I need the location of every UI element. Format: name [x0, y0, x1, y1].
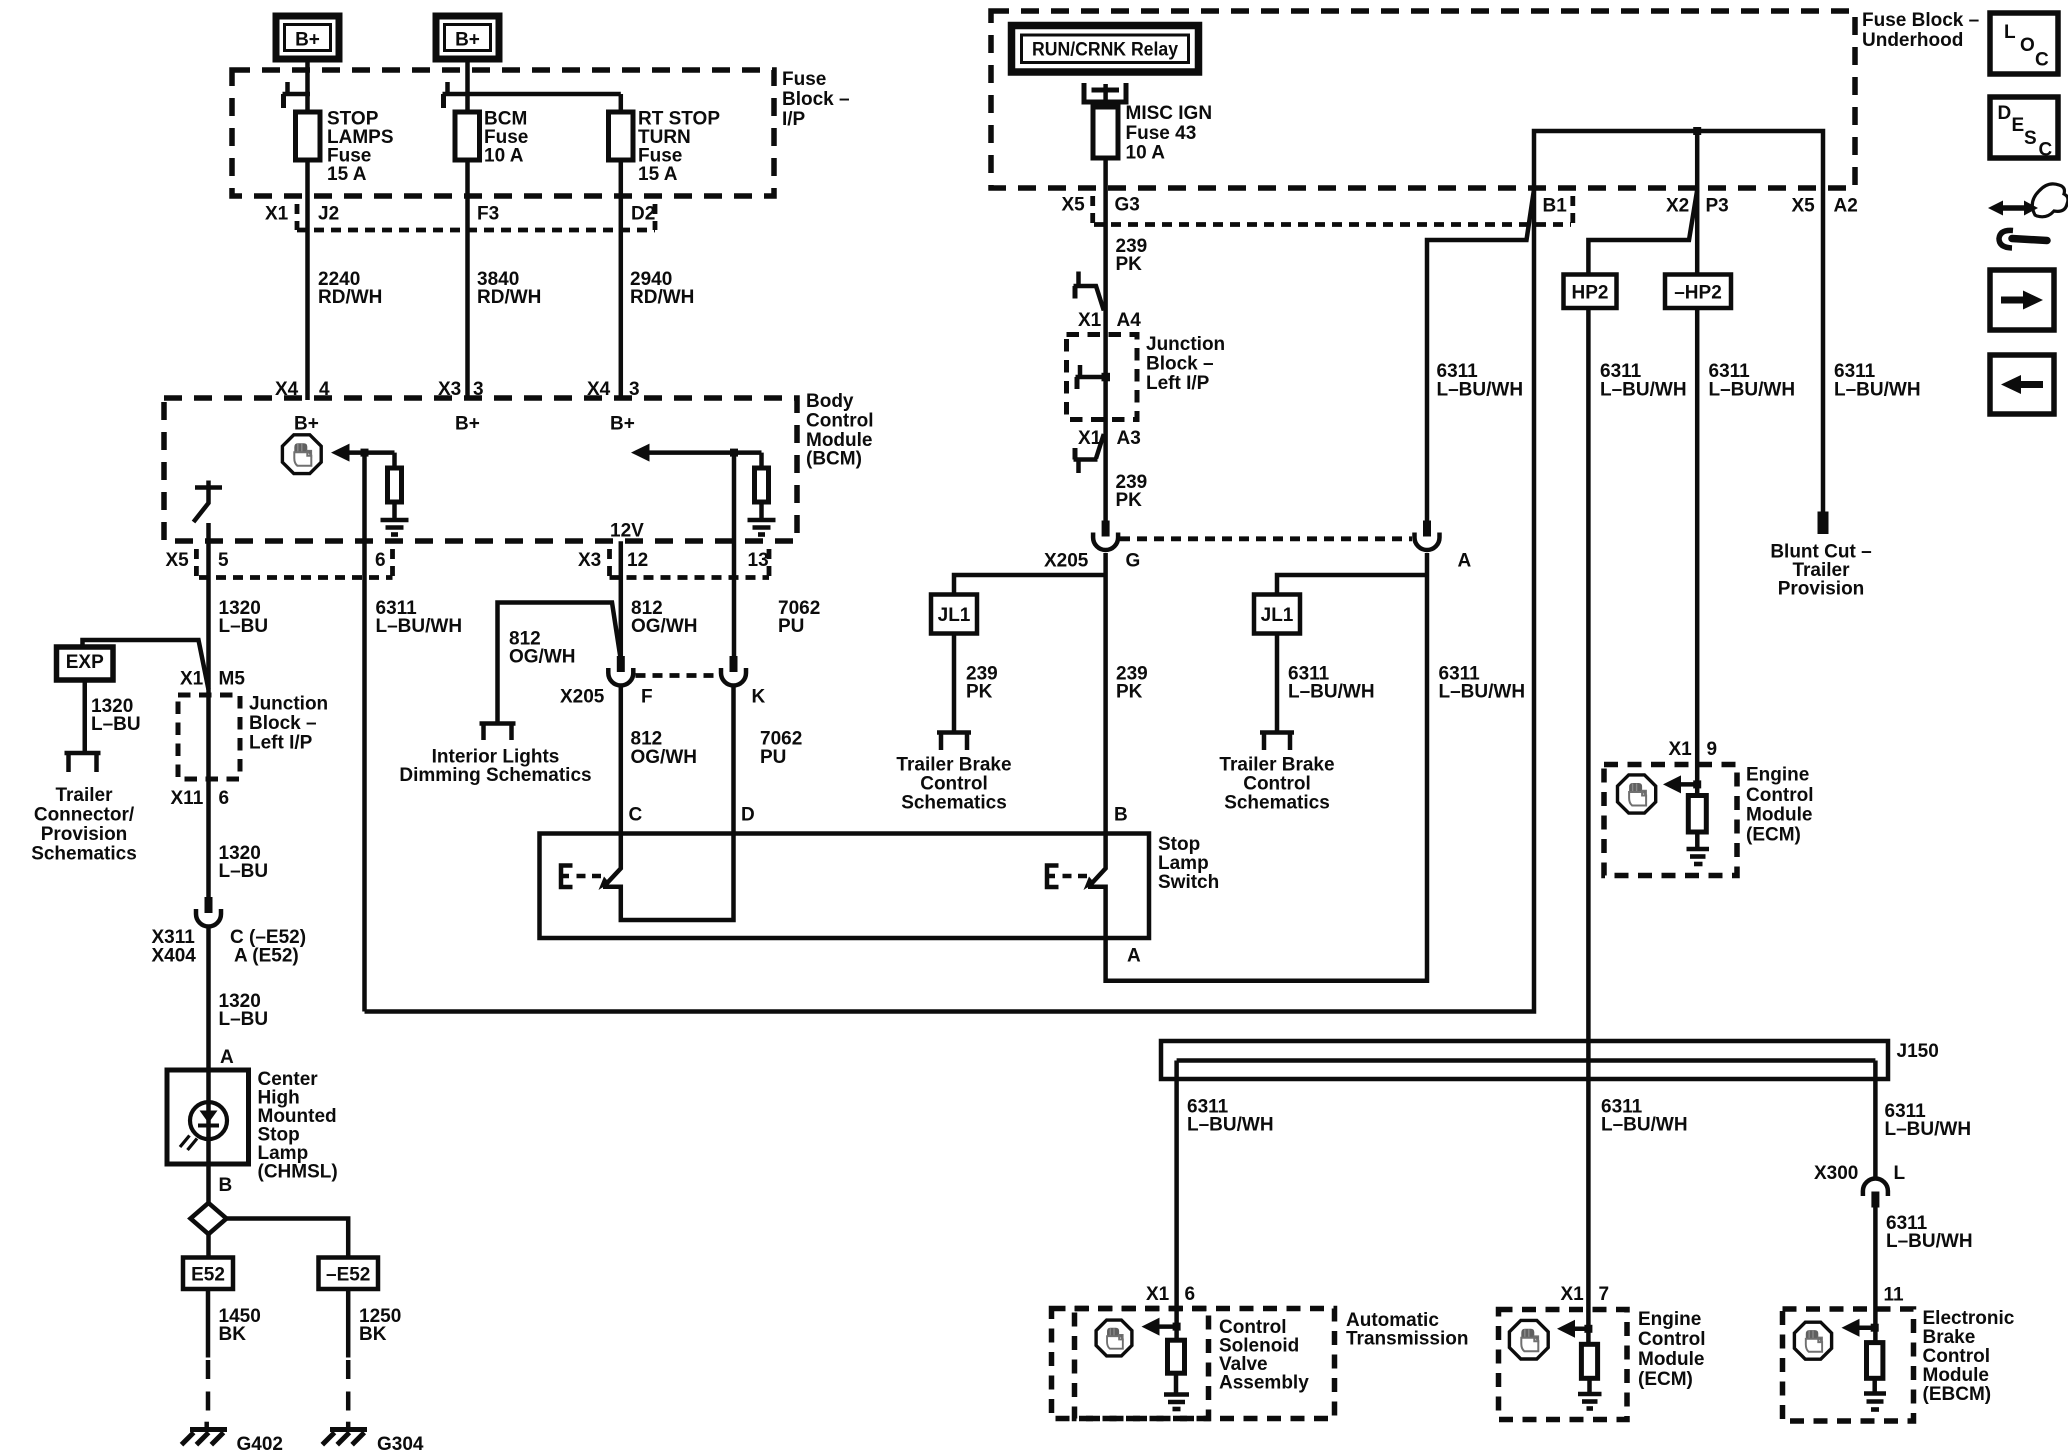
svg-text:PK: PK	[1116, 254, 1143, 275]
svg-text:BK: BK	[359, 1324, 387, 1345]
svg-text:OG/WH: OG/WH	[631, 747, 698, 768]
svg-text:–HP2: –HP2	[1674, 283, 1722, 304]
svg-text:Switch: Switch	[1158, 872, 1219, 893]
svg-text:Electronic: Electronic	[1923, 1308, 2015, 1329]
svg-text:A3: A3	[1117, 428, 1141, 449]
svg-text:B: B	[1114, 805, 1128, 826]
svg-text:B1: B1	[1543, 196, 1568, 217]
svg-text:B+: B+	[610, 414, 635, 435]
svg-text:L–BU/WH: L–BU/WH	[1601, 1115, 1688, 1136]
svg-text:X404: X404	[152, 946, 197, 967]
svg-text:C: C	[629, 805, 643, 826]
svg-text:Provision: Provision	[1778, 579, 1865, 600]
svg-text:Control: Control	[1923, 1346, 1991, 1367]
svg-text:F3: F3	[477, 204, 499, 225]
svg-text:JL1: JL1	[938, 605, 971, 626]
svg-text:L–BU: L–BU	[219, 1009, 269, 1030]
svg-text:C: C	[2035, 50, 2049, 71]
svg-text:L–BU/WH: L–BU/WH	[1886, 1231, 1973, 1252]
svg-text:10 A: 10 A	[484, 146, 524, 167]
svg-text:E: E	[2012, 115, 2025, 136]
svg-text:C: C	[2039, 140, 2053, 161]
svg-text:12: 12	[627, 550, 648, 571]
svg-text:4: 4	[319, 379, 330, 400]
svg-text:E52: E52	[191, 1265, 225, 1286]
svg-text:X1: X1	[1078, 428, 1102, 449]
svg-text:A2: A2	[1834, 196, 1858, 217]
svg-text:Junction: Junction	[1146, 334, 1225, 355]
svg-text:Module: Module	[1746, 805, 1813, 826]
svg-text:X1: X1	[1669, 739, 1693, 760]
svg-text:RD/WH: RD/WH	[318, 287, 382, 308]
svg-text:X1: X1	[1146, 1284, 1170, 1305]
svg-text:MISC IGN: MISC IGN	[1126, 103, 1213, 124]
svg-text:OG/WH: OG/WH	[509, 647, 576, 668]
svg-text:Module: Module	[1638, 1349, 1705, 1370]
svg-text:6: 6	[375, 550, 386, 571]
svg-text:Engine: Engine	[1638, 1309, 1701, 1330]
svg-text:Trailer: Trailer	[55, 785, 113, 806]
svg-text:(EBCM): (EBCM)	[1923, 1384, 1992, 1405]
svg-text:F: F	[641, 687, 653, 708]
svg-text:Brake: Brake	[1923, 1327, 1976, 1348]
svg-text:L–BU/WH: L–BU/WH	[1709, 380, 1796, 401]
svg-text:L–BU/WH: L–BU/WH	[1187, 1115, 1274, 1136]
svg-text:B+: B+	[294, 414, 319, 435]
svg-text:A (E52): A (E52)	[234, 946, 299, 967]
svg-text:Control: Control	[1746, 785, 1814, 806]
svg-text:3: 3	[473, 379, 484, 400]
svg-text:Module: Module	[1923, 1365, 1990, 1386]
svg-text:Dimming Schematics: Dimming Schematics	[399, 765, 591, 786]
svg-text:JL1: JL1	[1261, 605, 1294, 626]
svg-text:B: B	[219, 1175, 233, 1196]
svg-text:X2: X2	[1666, 196, 1689, 217]
svg-text:D: D	[1998, 103, 2012, 124]
svg-text:G3: G3	[1115, 195, 1140, 216]
svg-text:L–BU/WH: L–BU/WH	[1834, 380, 1921, 401]
svg-text:12V: 12V	[610, 521, 644, 542]
svg-text:(ECM): (ECM)	[1746, 825, 1801, 846]
svg-text:Block –: Block –	[1146, 354, 1214, 375]
svg-text:Provision: Provision	[41, 824, 128, 845]
svg-text:15 A: 15 A	[638, 164, 678, 185]
svg-text:11: 11	[1884, 1285, 1905, 1306]
svg-text:BK: BK	[219, 1324, 247, 1345]
svg-text:X205: X205	[560, 687, 605, 708]
svg-text:X1: X1	[1078, 310, 1102, 331]
svg-text:K: K	[752, 687, 766, 708]
svg-text:A: A	[1458, 551, 1472, 572]
svg-text:Trailer Brake: Trailer Brake	[896, 755, 1011, 776]
svg-text:RD/WH: RD/WH	[477, 287, 541, 308]
svg-text:Left I/P: Left I/P	[249, 733, 313, 754]
svg-text:I/P: I/P	[782, 109, 806, 130]
svg-text:Connector/: Connector/	[34, 805, 135, 826]
svg-text:6: 6	[219, 788, 230, 809]
svg-text:Engine: Engine	[1746, 765, 1809, 786]
svg-text:X5: X5	[1062, 195, 1086, 216]
svg-text:L: L	[2004, 22, 2016, 43]
svg-text:RD/WH: RD/WH	[630, 287, 694, 308]
svg-text:L–BU: L–BU	[219, 616, 269, 637]
svg-text:B+: B+	[295, 30, 320, 51]
svg-text:G304: G304	[377, 1434, 424, 1454]
svg-text:Schematics: Schematics	[1224, 793, 1330, 814]
svg-text:S: S	[2024, 128, 2037, 149]
svg-text:Control: Control	[1638, 1329, 1706, 1350]
svg-text:X5: X5	[166, 550, 190, 571]
svg-text:P3: P3	[1706, 196, 1729, 217]
svg-text:OG/WH: OG/WH	[631, 616, 698, 637]
svg-text:B+: B+	[455, 414, 480, 435]
svg-text:Block –: Block –	[249, 713, 317, 734]
svg-text:Block –: Block –	[782, 89, 850, 110]
svg-text:J2: J2	[318, 204, 339, 225]
svg-text:EXP: EXP	[66, 652, 104, 673]
svg-text:PK: PK	[1116, 682, 1143, 703]
svg-text:Lamp: Lamp	[1158, 853, 1209, 874]
svg-text:D2: D2	[631, 204, 655, 225]
svg-text:X1: X1	[180, 669, 204, 690]
svg-text:PU: PU	[760, 747, 786, 768]
svg-text:Fuse 43: Fuse 43	[1126, 123, 1197, 144]
svg-text:Schematics: Schematics	[901, 793, 1007, 814]
svg-text:13: 13	[748, 550, 769, 571]
svg-text:G402: G402	[237, 1434, 283, 1454]
svg-text:PK: PK	[966, 682, 993, 703]
svg-text:Stop: Stop	[1158, 834, 1200, 855]
svg-text:X1: X1	[1561, 1284, 1585, 1305]
svg-text:A: A	[220, 1047, 234, 1068]
svg-text:X4: X4	[275, 379, 299, 400]
svg-text:(ECM): (ECM)	[1638, 1369, 1693, 1390]
svg-text:X5: X5	[1792, 196, 1816, 217]
svg-text:L–BU/WH: L–BU/WH	[1288, 682, 1375, 703]
svg-text:X3: X3	[438, 379, 461, 400]
svg-text:X4: X4	[587, 379, 611, 400]
svg-text:X1: X1	[265, 204, 289, 225]
svg-text:7: 7	[1599, 1284, 1610, 1305]
svg-text:Trailer Brake: Trailer Brake	[1219, 755, 1334, 776]
svg-text:5: 5	[218, 550, 229, 571]
svg-text:Control: Control	[806, 411, 874, 432]
svg-text:L–BU/WH: L–BU/WH	[376, 616, 463, 637]
svg-text:Fuse: Fuse	[782, 69, 826, 90]
svg-text:X300: X300	[1814, 1163, 1858, 1184]
svg-text:9: 9	[1707, 739, 1718, 760]
svg-text:J150: J150	[1897, 1041, 1939, 1062]
svg-text:3: 3	[629, 379, 640, 400]
svg-text:O: O	[2020, 35, 2035, 56]
svg-text:L–BU: L–BU	[91, 714, 141, 735]
svg-text:Left I/P: Left I/P	[1146, 373, 1210, 394]
svg-text:X11: X11	[171, 788, 204, 809]
svg-text:Underhood: Underhood	[1862, 30, 1963, 51]
svg-text:Control: Control	[1243, 774, 1311, 795]
svg-text:(CHMSL): (CHMSL)	[258, 1162, 338, 1183]
svg-text:L–BU/WH: L–BU/WH	[1439, 682, 1526, 703]
svg-text:Junction: Junction	[249, 694, 328, 715]
svg-text:(BCM): (BCM)	[806, 449, 862, 470]
svg-text:Control: Control	[920, 774, 988, 795]
svg-text:L–BU/WH: L–BU/WH	[1600, 380, 1687, 401]
svg-text:A: A	[1127, 946, 1141, 967]
svg-text:B+: B+	[455, 30, 480, 51]
svg-text:Schematics: Schematics	[31, 844, 137, 865]
svg-text:L–BU/WH: L–BU/WH	[1885, 1119, 1972, 1140]
svg-text:10 A: 10 A	[1126, 143, 1166, 164]
svg-text:L–BU: L–BU	[219, 861, 269, 882]
svg-text:D: D	[741, 805, 755, 826]
svg-text:Assembly: Assembly	[1219, 1373, 1309, 1394]
svg-text:15 A: 15 A	[327, 164, 367, 185]
svg-text:X3: X3	[578, 550, 601, 571]
svg-text:L: L	[1894, 1163, 1906, 1184]
svg-text:L–BU/WH: L–BU/WH	[1437, 380, 1524, 401]
svg-text:X205: X205	[1044, 551, 1089, 572]
svg-text:A4: A4	[1117, 310, 1142, 331]
svg-text:PK: PK	[1116, 490, 1143, 511]
svg-text:RUN/CRNK Relay: RUN/CRNK Relay	[1032, 40, 1178, 61]
svg-text:M5: M5	[219, 669, 246, 690]
svg-text:Body: Body	[806, 391, 854, 412]
svg-text:G: G	[1126, 551, 1141, 572]
svg-text:HP2: HP2	[1572, 283, 1609, 304]
svg-text:PU: PU	[778, 616, 804, 637]
svg-text:6: 6	[1185, 1284, 1196, 1305]
svg-text:Fuse Block –: Fuse Block –	[1862, 10, 1979, 31]
svg-text:Transmission: Transmission	[1346, 1329, 1469, 1350]
svg-text:–E52: –E52	[326, 1265, 370, 1286]
